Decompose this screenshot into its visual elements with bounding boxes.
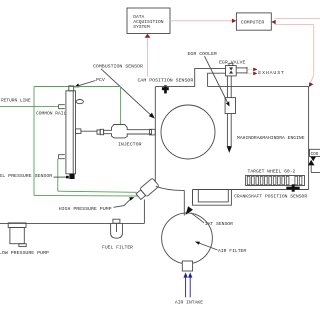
air filter neck left	[183, 190, 185, 215]
EGR cooler body	[225, 98, 235, 114]
rail left bottom connector	[59, 155, 65, 159]
crank wire up arrow	[308, 160, 315, 166]
exhaust arrow upper	[248, 68, 253, 70]
pipe: rail to injector	[81, 130, 97, 132]
svg-text:COMBUSTION SENSOR: COMBUSTION SENSOR	[93, 64, 143, 70]
svg-text:RETURN LINE: RETURN LINE	[1, 97, 31, 103]
svg-text:COMPUTER: COMPUTER	[241, 20, 265, 26]
EGR valve top cap	[229, 63, 233, 65]
green return loop: top run	[34, 86, 121, 88]
combustion sensor arrowhead	[149, 113, 155, 119]
svg-text:EXHAUST: EXHAUST	[258, 70, 285, 76]
air filter neck right	[192, 190, 194, 204]
rail injector port	[76, 129, 81, 134]
green return loop: bottom run to pump	[34, 194, 138, 197]
EGR cooler pointer line	[205, 56, 228, 102]
green return loop: left drop	[33, 87, 35, 196]
fuel filter stem	[116, 223, 118, 232]
fuel filter body	[111, 223, 123, 238]
IAT sensor pointer	[191, 213, 204, 223]
air filter pointer arrowhead	[195, 242, 200, 245]
wire: computer to engine (diagonal)	[310, 75, 314, 85]
crank wire to image edge	[311, 172, 320, 174]
svg-text:AIR FILTER: AIR FILTER	[218, 248, 246, 254]
air intake arrows (blue)	[186, 277, 191, 297]
high pressure pump body	[135, 178, 159, 201]
svg-text:EGR VALVE: EGR VALVE	[219, 59, 245, 65]
svg-text:HIGH PRESSURE PUMP: HIGH PRESSURE PUMP	[59, 206, 112, 212]
EGR valve hourglass	[229, 67, 233, 73]
svg-text:SYSTEM: SYSTEM	[133, 24, 150, 30]
crank wire vertical	[310, 165, 312, 172]
wire: DAQ to computer	[170, 20, 232, 22]
return from rail: vertical	[57, 159, 59, 191]
fuel filter cap	[113, 219, 120, 223]
computer box	[236, 13, 271, 30]
exhaust arrow lower	[248, 72, 253, 74]
svg-text:CAM POSITION SENSOR: CAM POSITION SENSOR	[138, 77, 194, 83]
engine bottom-left edge (curve from pump)	[156, 186, 184, 190]
svg-text:FUEL PRESSURE SENSOR: FUEL PRESSURE SENSOR	[0, 173, 52, 179]
injector body	[104, 125, 152, 138]
cam position sensor (black T on engine top)	[162, 85, 169, 93]
common rail body	[66, 91, 76, 174]
svg-text:FUEL FILTER: FUEL FILTER	[102, 245, 133, 251]
fuel line from tank through filter to pump	[0, 222, 144, 224]
IAT sensor arrow (black)	[186, 206, 193, 215]
fuel line riser to HP pump	[143, 200, 145, 224]
wire: computer to engine (vertical right side)	[313, 25, 315, 76]
svg-text:CRANKSHAFT POSITION SENSOR: CRANKSHAFT POSITION SENSOR	[234, 194, 307, 200]
flywheel circle	[161, 105, 215, 159]
arrowhead up into DAQ bottom	[145, 34, 151, 38]
common rail inner line	[72, 91, 74, 174]
intake duct inner wall	[208, 73, 226, 86]
target wheel (toothed)	[246, 176, 305, 186]
wire: computer to engine (horizontal)	[275, 24, 314, 26]
high pressure pump pointer	[114, 199, 131, 207]
EGR valve right pipe	[236, 67, 247, 69]
svg-text:AIR INTAKE: AIR INTAKE	[175, 299, 203, 305]
svg-text:IAT SENSOR: IAT SENSOR	[205, 221, 233, 227]
arrowhead into engine top right corner	[309, 82, 314, 87]
PCV pointer line	[79, 81, 96, 86]
svg-text:COO: COO	[311, 152, 319, 157]
arrowhead into computer right	[271, 20, 275, 24]
wire: computer right to image edge	[275, 18, 320, 20]
pipe: EGR valve down to cooler	[226, 76, 228, 98]
svg-text:INJECTOR: INJECTOR	[118, 142, 142, 148]
svg-text:MAHINDRA&MAHINDRA ENGINE: MAHINDRA&MAHINDRA ENGINE	[237, 135, 305, 141]
engine right edge	[308, 87, 310, 190]
rail left top connector	[59, 105, 65, 109]
fuel pressure sensor (black, rail bottom)	[66, 174, 75, 179]
EGR valve right pipe flange	[246, 67, 248, 74]
svg-text:COMMON RAIL: COMMON RAIL	[36, 111, 67, 117]
data acquisition system box	[127, 8, 170, 34]
combustion sensor pointer line	[101, 69, 150, 115]
low pressure pump	[8, 223, 26, 228]
engine bottom edge	[193, 189, 309, 191]
coolant sensor down arrow	[310, 157, 316, 162]
intake duct outer wall	[195, 68, 226, 86]
EGR valve body	[226, 66, 237, 76]
engine top edge (right part)	[208, 86, 309, 88]
rail right top fitting	[76, 100, 83, 104]
EGR flow arrow (black, down)	[227, 146, 232, 153]
high pressure pump arrowhead	[129, 197, 134, 200]
air filter bottom stub	[182, 261, 192, 271]
svg-text:TARGET WHEEL 60-2: TARGET WHEEL 60-2	[248, 168, 296, 174]
PCV valve on rail top	[69, 86, 74, 91]
svg-text:LOW PRESSURE PUMP: LOW PRESSURE PUMP	[0, 250, 49, 256]
engine left edge	[154, 87, 156, 182]
PCV arrowhead	[74, 83, 79, 87]
EGR cooler pointer arrowhead	[226, 101, 230, 106]
injector nozzle tip	[97, 130, 100, 134]
air filter circle	[162, 213, 213, 264]
return from rail: horizontal to pump	[58, 191, 137, 192]
injector engine-side connector	[150, 129, 156, 135]
pipe: cooler down into engine	[226, 114, 228, 147]
fuel pressure sensor pointer	[54, 176, 67, 178]
svg-text:PCV: PCV	[96, 77, 105, 83]
green drop to injector	[120, 87, 122, 125]
oil sump inner	[198, 190, 228, 202]
engine top edge (left part)	[155, 86, 194, 88]
crankshaft position sensor (black plus)	[286, 184, 299, 191]
arrowhead into computer left	[232, 19, 236, 23]
return line (to tank, image left edge)	[0, 106, 58, 108]
air filter pointer line	[199, 243, 218, 250]
coolant sensor label box (right edge)	[310, 149, 320, 156]
wire: DAQ down to cam sensor label	[147, 38, 149, 77]
svg-text:EGR COOLER: EGR COOLER	[188, 51, 217, 57]
oil sump outer	[193, 190, 232, 206]
